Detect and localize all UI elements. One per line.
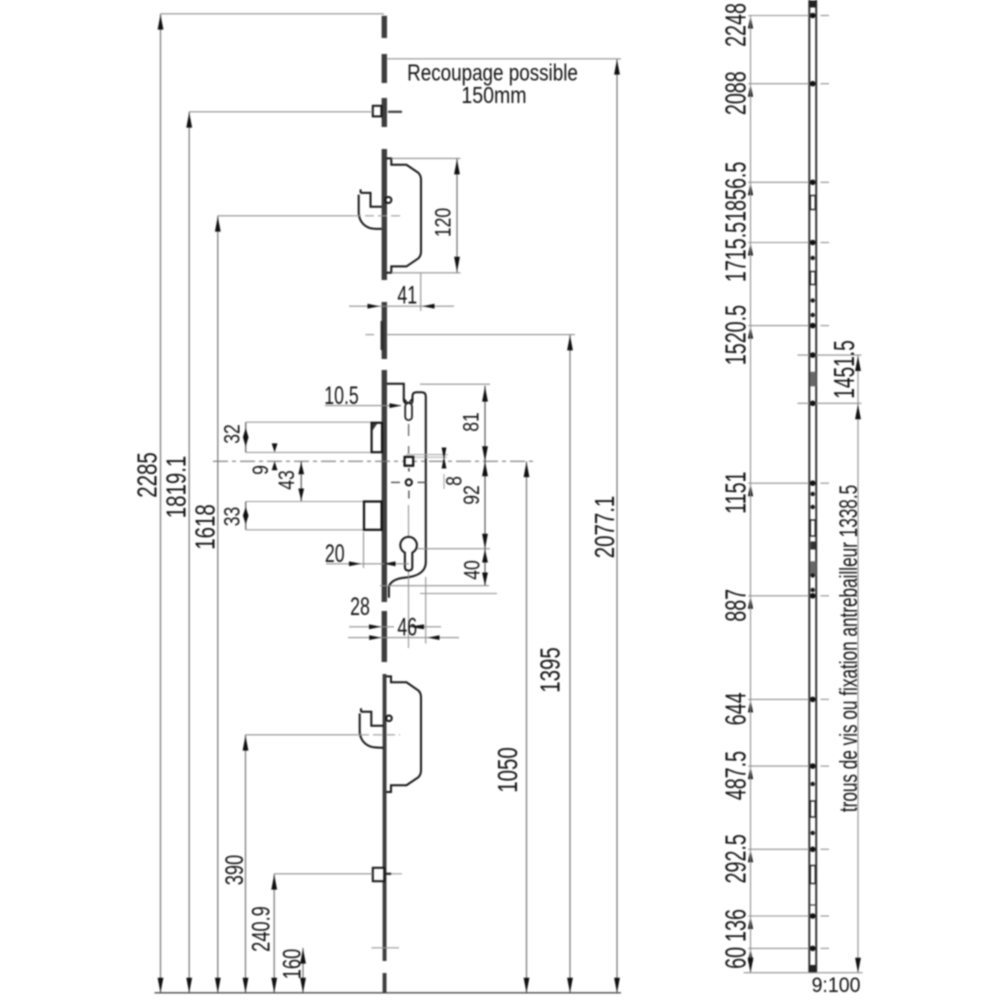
top slot cross 1 [404,399,411,407]
leader 160 dashes [372,947,400,949]
dimension 1618 [217,216,219,993]
top hook case body [387,158,422,272]
antrebailleur block 2 [810,561,816,576]
screw hole dash left [391,481,400,483]
top hook bolt [359,189,382,229]
svg-text:60: 60 [721,947,753,969]
bottom roller leader arrow [385,873,392,875]
top roller leader arrow [388,111,402,113]
dimension 240.9 [273,874,275,993]
hole dimension 1520.5 [748,325,809,327]
svg-text:1618: 1618 [191,504,222,549]
deadbolt ext bottom [246,529,364,531]
dim 81-92 line [484,386,486,549]
hole dimension 2248 [748,15,809,17]
strip cutout 5 [810,866,815,884]
strip cutout 4 [810,801,815,817]
dim 43 arrows [298,462,304,474]
dim 46 line [348,637,459,639]
dim 120 ext top [391,157,460,159]
dim 32 arrows [243,428,249,447]
svg-text:487.5: 487.5 [721,751,753,800]
screw hole dash below [408,491,410,499]
svg-text:20: 20 [325,539,345,568]
dim 41 line [349,305,454,307]
strip dot 1 [811,256,815,260]
svg-text:160: 160 [278,949,307,979]
svg-text:92: 92 [460,485,484,505]
deadbolt ext top [246,501,364,503]
central case top step [387,384,406,404]
svg-text:2285: 2285 [133,452,164,497]
strip right edge [815,0,817,973]
screw hole circle [406,479,412,485]
dim 32 line [245,422,247,452]
strip cutout 2 [810,272,815,285]
case vertical centerline [408,424,410,436]
central case bottom curve [389,562,426,598]
bottom hook bolt [360,708,384,748]
faceplate segment 4 [382,149,387,280]
svg-text:46: 46 [397,612,417,641]
dim 120 arrows [454,159,460,174]
dimension 1819.1 [188,112,190,993]
top slot obround [405,403,412,420]
hole dimension 1151 [748,482,809,484]
dim 43 line [300,461,302,501]
cylinder axis ext line [408,505,410,648]
strip left edge [808,0,810,973]
common dimension line [750,16,752,973]
dim 33 line [245,502,247,530]
bottom hook case body [387,676,422,792]
svg-text:40: 40 [461,560,485,580]
aux line y457 [414,456,447,458]
dim 120 ext bottom [391,272,460,274]
svg-text:292.5: 292.5 [721,834,753,883]
dim 81 arrows [482,387,488,402]
dim 40 arrows [482,550,488,563]
dim 41 arrows [368,304,380,309]
latch ext top [246,421,383,423]
strip cutout 3 [810,520,815,536]
svg-text:644: 644 [721,692,753,725]
dim 40 ext line [380,585,489,587]
dim 28 line [349,626,394,628]
dim line 1451.5-1338.5 [857,355,859,973]
svg-text:9:100: 9:100 [812,975,861,998]
top slot cross 2 [406,399,412,407]
dim 9 arrows [272,443,278,452]
dim 92 ext bottom [417,548,490,550]
follower square [405,457,414,466]
svg-text:1715.5: 1715.5 [721,222,753,282]
latch bevel [373,424,378,431]
svg-text:2088: 2088 [721,71,753,115]
dim 8 tail [443,474,445,489]
top roller cam [373,106,382,117]
screw hole dash right [418,481,427,483]
dimension 160 [302,948,304,993]
dim 20 line [326,563,409,565]
strip dot 3 [811,313,815,317]
svg-text:32: 32 [221,424,245,444]
hole dimension 1715.5 [748,242,809,244]
svg-text:240.9: 240.9 [247,906,276,952]
case edge ext line [425,577,427,644]
svg-text:trous de vis ou fixation antre: trous de vis ou fixation antrebailleur 1… [835,485,863,812]
baseline [155,992,622,994]
follower dash below [408,468,410,472]
svg-text:41: 41 [397,281,417,310]
faceplate segment 6 [382,370,387,602]
faceplate segment 2 [382,54,387,83]
dimension 2285 [160,14,162,993]
strip dot 7 [811,588,815,592]
hole dimension 2088 [748,83,809,85]
hole dimension 136 [748,915,809,917]
case bottom ext line [420,593,497,595]
dimension 390 [245,735,247,993]
strip dot 6 [811,573,815,577]
svg-text:2248: 2248 [721,3,753,47]
hole dimension 487.5 [748,765,809,767]
svg-text:28: 28 [350,592,370,621]
hole dimension 644 [748,698,809,700]
svg-text:136: 136 [721,909,753,942]
dimension 1050 [526,461,528,993]
antrebailleur block 1 [810,372,816,387]
hole dimension 292.5 [748,848,809,850]
strip top cap [809,1,817,8]
svg-text:9: 9 [249,465,273,475]
svg-text:1819.1: 1819.1 [162,456,193,518]
strip dot 2 [811,298,815,302]
dim 40 line [484,549,486,586]
dim 120 line [456,158,458,272]
deadbolt [364,502,382,530]
dim 92 arrow bottom [482,534,488,549]
dim 10.5 arrow [390,403,402,408]
hole dimension 887 [748,595,809,597]
svg-text:1395: 1395 [536,647,567,692]
faceplate segment 1 [382,16,387,38]
aux line y455 [406,454,448,456]
svg-text:1050: 1050 [493,747,524,792]
leader 1395 left tick [366,334,375,336]
hole 1338.5 [798,402,862,404]
bottom hook centerline [246,734,361,736]
strip dot 5 [811,505,815,509]
svg-text:43: 43 [275,470,299,490]
latch ext bottom [246,451,383,453]
dim 28 arrows [369,624,381,629]
hole dimension 1856.5 [748,181,809,183]
faceplate segment 5 [382,302,387,359]
faceplate segment 9 (rail foot) [383,973,387,993]
dim 20 ext line [363,532,365,568]
right baseline [744,972,863,974]
svg-text:8: 8 [443,476,467,486]
svg-text:1856.5: 1856.5 [721,162,753,222]
strip dot 4 [811,492,815,496]
bottom roller cam [373,868,384,881]
hole 1451.5 [798,354,862,356]
strip seam [809,904,816,906]
svg-text:2077.1: 2077.1 [590,496,621,558]
strip dot 8 [811,782,815,786]
svg-text:81: 81 [460,412,484,432]
dimension 2077.1 [616,59,618,993]
bottom hook pivot knob [386,716,392,722]
svg-text:887: 887 [721,589,753,622]
faceplate section mark [381,321,384,350]
case centerline horizontal [213,460,534,462]
dim 81-92 ext top [420,383,490,385]
hole dimension 60 [748,947,809,949]
faceplate segment 3 [382,98,387,127]
svg-text:1520.5: 1520.5 [721,305,753,365]
faceplate segment 8 (lower rail) [383,674,387,961]
strip cutout 1 [810,196,815,210]
central case right side [412,392,426,562]
dim 8 arrows [442,448,447,460]
svg-text:1451.5: 1451.5 [829,340,861,398]
dim 46 arrows [369,635,381,640]
svg-text:390: 390 [220,855,249,885]
svg-text:120: 120 [432,208,456,237]
svg-text:150mm: 150mm [461,83,526,109]
strip dark mark [811,542,816,550]
euro cylinder keyhole [400,537,417,571]
svg-text:33: 33 [221,507,245,527]
faceplate segment 7 [382,611,387,662]
strip bottom cap [809,965,816,973]
top hook pivot knob [385,197,391,203]
svg-text:10.5: 10.5 [324,381,359,410]
dim 41 ext line [420,274,422,312]
latch bolt head [372,423,382,452]
strip dot 9 [811,831,815,835]
dimension 1395 [569,335,571,993]
top hook centerline [218,215,352,217]
dim 10.5 line [325,405,401,407]
svg-text:1151: 1151 [721,472,753,514]
dim 33 arrows [243,507,249,524]
dim 20 arrows [349,561,361,566]
